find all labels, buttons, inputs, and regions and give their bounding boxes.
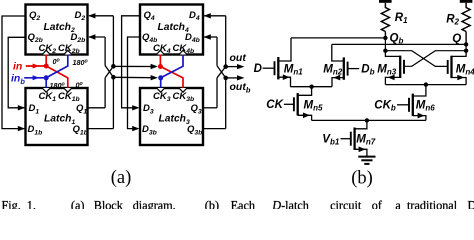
svg-text:D: D (468, 199, 474, 209)
svg-text:D: D (254, 63, 262, 75)
svg-text:in: in (13, 61, 22, 73)
svg-text:Fig.: Fig. (2, 199, 21, 209)
svg-text:Block: Block (94, 199, 124, 209)
svg-text:D-latch: D-latch (271, 199, 309, 209)
svg-text:of: of (372, 199, 383, 209)
svg-text:diagram.: diagram. (133, 199, 176, 209)
svg-text:(b): (b) (351, 168, 373, 188)
svg-text:(b): (b) (205, 199, 219, 209)
svg-text:Q: Q (452, 33, 461, 45)
svg-text:traditional: traditional (407, 199, 458, 209)
svg-text:1.: 1. (27, 199, 36, 209)
svg-text:Latch3: Latch3 (159, 114, 190, 126)
svg-text:circuit: circuit (330, 199, 362, 209)
svg-text:a: a (395, 199, 401, 209)
svg-text:CK: CK (266, 99, 283, 111)
svg-text:(a): (a) (111, 168, 132, 188)
svg-text:out: out (230, 52, 247, 64)
svg-text:Latch1: Latch1 (44, 114, 75, 126)
svg-text:(a): (a) (71, 199, 85, 209)
svg-text:Each: Each (231, 199, 255, 209)
